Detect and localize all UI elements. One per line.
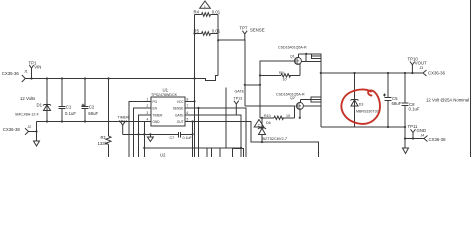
svg-text:4: 4 <box>147 118 149 122</box>
wire GATE pin6 <box>190 115 241 157</box>
svg-text:1: 1 <box>147 97 149 101</box>
svg-text:0.1uF: 0.1uF <box>183 136 193 140</box>
svg-text:J3: J3 <box>420 66 424 70</box>
resistor R10 <box>260 114 294 120</box>
svg-text:VOUT: VOUT <box>415 61 427 66</box>
svg-text:CX35-36: CX35-36 <box>2 71 20 76</box>
wire gate feed horizontal <box>245 84 260 86</box>
svg-text:GATE: GATE <box>235 89 245 93</box>
wire C7 to OUT <box>181 122 193 135</box>
wire SENSE net <box>218 40 245 106</box>
svg-text:12 Volt @25A Nominal: 12 Volt @25A Nominal <box>426 98 469 103</box>
cut-off wires bottom <box>207 148 220 157</box>
svg-text:CSD16401Q5A-R: CSD16401Q5A-R <box>278 46 307 50</box>
resistor R9 <box>259 71 300 82</box>
wire OUT pin5 <box>190 122 319 158</box>
svg-text:CX36-38: CX36-38 <box>429 137 447 142</box>
svg-text:VIN: VIN <box>34 65 41 70</box>
wire output drop <box>320 59 322 127</box>
svg-text:0.1uF: 0.1uF <box>409 107 420 112</box>
wire VCC pin8 <box>190 100 195 102</box>
page border right <box>470 0 472 157</box>
svg-text:U1: U1 <box>163 88 169 93</box>
capacitor C1 <box>59 77 77 121</box>
svg-text:10: 10 <box>286 114 290 118</box>
svg-text:2: 2 <box>147 104 149 108</box>
svg-text:D6: D6 <box>266 121 271 125</box>
output rail H2 <box>321 72 423 74</box>
diode D1 TVS <box>15 77 51 121</box>
svg-text:GND: GND <box>153 120 161 124</box>
svg-text:SMCJ/8A-12-F: SMCJ/8A-12-F <box>15 113 40 117</box>
sense loop left vertical / VCC feed <box>194 15 196 158</box>
wire GND rail left <box>37 121 147 123</box>
svg-text:TPS2478WDCK: TPS2478WDCK <box>151 93 178 97</box>
svg-text:D1: D1 <box>37 103 43 108</box>
svg-text:0.1uF: 0.1uF <box>65 111 76 116</box>
test point TP14 <box>118 116 130 135</box>
diode D3 schottky <box>351 72 380 127</box>
svg-text:10: 10 <box>283 78 287 82</box>
resistor R5 sense <box>194 28 221 35</box>
note triangle 1 <box>200 1 211 9</box>
ground symbol chip <box>149 133 151 135</box>
svg-text:R5: R5 <box>194 28 200 33</box>
note triangle 2 <box>254 120 264 128</box>
svg-text:6: 6 <box>187 111 189 115</box>
wire VIN rail <box>25 76 218 81</box>
svg-text:J4: J4 <box>421 133 425 137</box>
test point TP1 <box>29 60 42 78</box>
capacitor C5 polarized <box>383 72 402 127</box>
svg-text:TP14: TP14 <box>119 120 128 124</box>
resistor R1 133k vertical <box>98 77 112 157</box>
wire gate feed to Q2 <box>245 105 296 107</box>
ground symbol output <box>404 139 406 149</box>
wire Q1 source out <box>301 61 321 63</box>
svg-text:SENSE: SENSE <box>173 107 184 111</box>
svg-text:J1: J1 <box>24 69 28 73</box>
svg-text:CX36-38: CX36-38 <box>3 127 21 132</box>
wire timer C7 row <box>123 133 178 135</box>
svg-text:GATE: GATE <box>175 113 183 117</box>
wire bottom bus <box>144 147 241 149</box>
svg-text:68uF: 68uF <box>88 111 98 116</box>
svg-text:C2: C2 <box>89 104 95 109</box>
svg-text:GND: GND <box>417 128 427 133</box>
svg-text:2: 2 <box>258 124 260 128</box>
svg-text:7: 7 <box>187 104 189 108</box>
wire PG pin1 <box>129 101 146 157</box>
wire out drop <box>192 134 194 157</box>
svg-text:C7: C7 <box>170 136 175 140</box>
svg-text:8: 8 <box>187 97 189 101</box>
svg-text:R10: R10 <box>264 114 271 118</box>
svg-text:U2: U2 <box>160 153 166 158</box>
diode D6 zener <box>258 117 287 143</box>
capacitor C8 <box>402 72 420 148</box>
wire GND rail right <box>321 126 405 128</box>
node junction TP1 <box>30 77 32 79</box>
test point TP11 <box>408 124 427 139</box>
svg-text:J2: J2 <box>28 125 32 129</box>
svg-text:BZT52C6V2-7: BZT52C6V2-7 <box>263 137 288 141</box>
svg-text:12 Volts: 12 Volts <box>20 96 35 101</box>
svg-text:133k: 133k <box>98 141 108 146</box>
wire Q2 source out <box>303 105 321 107</box>
wire gnd out <box>405 138 424 140</box>
svg-text:Q2: Q2 <box>290 96 295 100</box>
wire SENSE pin7 <box>190 108 246 157</box>
svg-text:68uF: 68uF <box>392 101 402 106</box>
svg-text:0.01: 0.01 <box>212 9 221 14</box>
svg-text:C1: C1 <box>66 104 72 109</box>
wire EN pin2 <box>134 108 147 157</box>
svg-text:CX36-36: CX36-36 <box>428 70 446 75</box>
wire gnd input <box>29 122 37 142</box>
wire Q1 gate <box>260 60 294 62</box>
resistor R4 sense <box>194 9 221 16</box>
svg-text:VCC: VCC <box>177 100 184 104</box>
annotation red circle <box>341 90 380 124</box>
wire Q1 drain <box>298 53 311 55</box>
test point TP7 <box>240 26 265 41</box>
wire gate split vertical <box>259 60 261 118</box>
jumper box Q1 <box>311 54 320 59</box>
svg-text:R9: R9 <box>279 71 284 75</box>
connector J3 CX36-36 <box>420 66 446 76</box>
svg-text:1: 1 <box>204 5 206 9</box>
cut-off box bottom <box>233 149 244 158</box>
connector J4 CX36-38 <box>421 133 447 142</box>
ground symbol input <box>34 141 40 146</box>
svg-text:EN: EN <box>153 107 158 111</box>
capacitor C2 polarized <box>82 77 99 121</box>
wire sense drop aux <box>198 108 200 157</box>
test point TP10 <box>408 57 428 75</box>
svg-text:0.01: 0.01 <box>212 28 221 33</box>
svg-text:TIMER: TIMER <box>153 113 164 117</box>
capacitor C7 <box>170 132 193 140</box>
svg-text:D3: D3 <box>359 103 364 107</box>
svg-text:Q1: Q1 <box>290 55 295 59</box>
jumper box Q2 <box>311 97 321 102</box>
wire Q2 drain <box>300 98 311 100</box>
test point TP13 <box>234 89 245 115</box>
svg-text:PG: PG <box>153 100 158 104</box>
svg-text:R4: R4 <box>194 9 200 14</box>
transistor Q2 <box>294 99 303 119</box>
svg-text:SENSE: SENSE <box>250 28 265 33</box>
wire aux drop <box>225 88 227 148</box>
svg-text:R1: R1 <box>101 135 107 140</box>
connector J1 CX35-36 <box>2 69 28 82</box>
connector J2 CX36-38 <box>3 125 31 135</box>
svg-text:3: 3 <box>147 111 149 115</box>
sense loop right vertical <box>217 15 219 76</box>
svg-text:OUT: OUT <box>177 120 184 124</box>
svg-text:TP7: TP7 <box>240 26 248 31</box>
svg-text:TP13: TP13 <box>234 97 243 101</box>
wire GND pin4 drop <box>143 122 145 158</box>
wire TIMER pin3 <box>139 115 147 157</box>
op-amp U1 hot-swap controller TPS2478 <box>146 88 190 127</box>
transistor Q1 <box>290 54 301 76</box>
svg-text:MBRS330T3G: MBRS330T3G <box>356 110 380 114</box>
svg-text:5: 5 <box>187 118 189 122</box>
